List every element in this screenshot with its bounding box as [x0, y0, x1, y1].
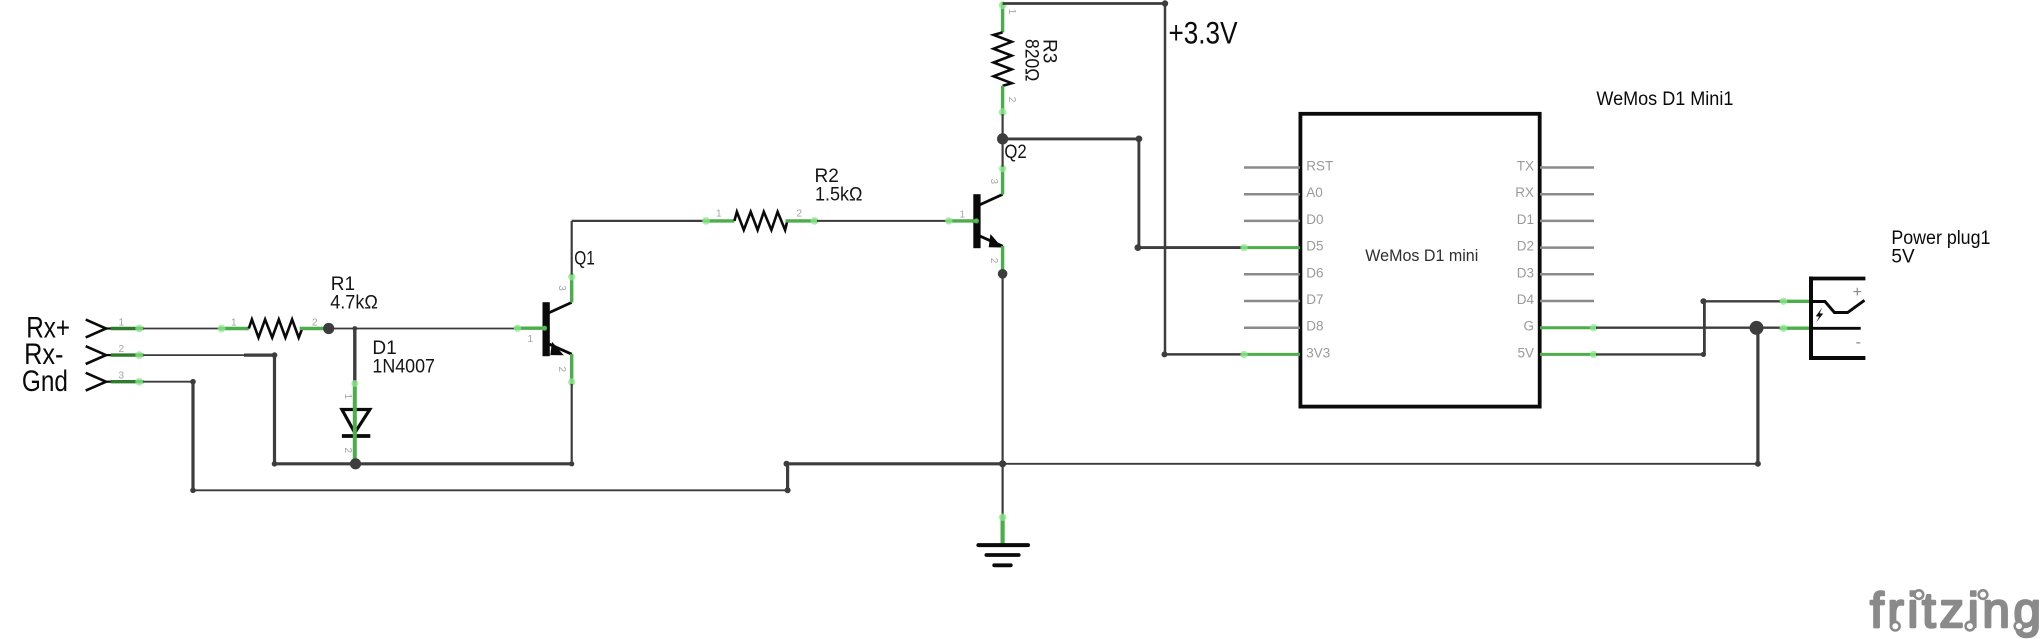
- resistor R3: [994, 1, 1017, 116]
- wire R2 to Q2 base: [817, 220, 948, 222]
- pin D6: [1244, 265, 1324, 280]
- label WeMos D1 Mini1: [1596, 89, 1733, 110]
- svg-text:D3: D3: [1517, 265, 1534, 280]
- pin 5V: [1517, 345, 1597, 360]
- wire 5V to plug plus: [1596, 298, 1783, 357]
- connector J1 pin 2 (Rx-): [86, 344, 144, 364]
- port label Gnd: [22, 365, 68, 398]
- power plug PWR1: [1780, 277, 1866, 360]
- resistor R1: [218, 317, 324, 337]
- wire 3.3V vertical to 3V3 pin: [1162, 4, 1244, 358]
- wire Rx- horizontal: [144, 354, 275, 356]
- svg-text:820Ω: 820Ω: [1021, 39, 1042, 81]
- port label Rx+: [26, 312, 70, 345]
- wire down to D1: [353, 329, 356, 383]
- svg-text:1: 1: [342, 394, 353, 400]
- label D1 1N4007: [372, 338, 435, 378]
- svg-text:Q2: Q2: [1004, 142, 1026, 163]
- svg-text:RST: RST: [1306, 159, 1333, 174]
- svg-text:5V: 5V: [1517, 345, 1534, 360]
- label Q2: [1004, 142, 1026, 163]
- svg-text:D8: D8: [1306, 319, 1323, 334]
- svg-text:G: G: [1523, 319, 1534, 334]
- connector J1 pin 1 (Rx+): [86, 318, 144, 338]
- transistor Q2: [945, 165, 1006, 278]
- pin RX: [1515, 185, 1594, 200]
- wire Gnd vertical down: [190, 382, 196, 493]
- wire gnd rise to plug minus: [1756, 328, 1759, 464]
- svg-text:Q1: Q1: [574, 249, 595, 270]
- svg-text:+3.3V: +3.3V: [1169, 14, 1238, 50]
- wire R1 junction to Q1 base: [329, 326, 516, 331]
- wire Q1 emitter down: [571, 384, 573, 464]
- svg-text:1: 1: [119, 318, 125, 329]
- wire Q2 collector up: [1001, 139, 1003, 167]
- svg-text:D1: D1: [1517, 212, 1534, 227]
- node G junction: [1750, 321, 1764, 335]
- IC U1 WeMos D1 mini body: [1300, 114, 1539, 407]
- wire gnd to ground symbol junction: [788, 462, 1003, 465]
- svg-text:2: 2: [988, 258, 999, 264]
- pin D8: [1244, 319, 1324, 334]
- pin D3: [1517, 265, 1594, 280]
- wire collector junction to D5: [1003, 136, 1243, 252]
- svg-text:-: -: [1856, 334, 1861, 351]
- node 3.3V top junction: [1162, 0, 1168, 6]
- watermark fritzing: [1870, 583, 2043, 638]
- transistor Q1: [514, 273, 576, 386]
- node D1 cathode junction: [350, 458, 361, 469]
- svg-text:D6: D6: [1306, 265, 1323, 280]
- svg-text:TX: TX: [1517, 159, 1534, 174]
- svg-text:1: 1: [231, 317, 237, 328]
- pin D5: [1240, 239, 1323, 254]
- ground symbol: [978, 514, 1028, 566]
- svg-text:RX: RX: [1515, 185, 1534, 200]
- svg-text:A0: A0: [1306, 185, 1323, 200]
- svg-text:1: 1: [528, 334, 534, 345]
- pin D4: [1517, 292, 1594, 307]
- svg-text:WeMos D1 mini: WeMos D1 mini: [1365, 246, 1478, 265]
- wire Q1 collector up and right to R2: [572, 221, 705, 275]
- wire D1 cathode to Q1 emitter net: [355, 461, 575, 466]
- wire Gnd horizontal stub: [144, 379, 196, 385]
- wire Rx+ to R1: [144, 328, 221, 330]
- label Q1: [574, 249, 595, 270]
- pin 3V3: [1240, 345, 1330, 360]
- svg-text:1.5kΩ: 1.5kΩ: [815, 185, 863, 206]
- pin A0: [1244, 185, 1323, 200]
- svg-text:D0: D0: [1306, 212, 1323, 227]
- connector J1 pin 3 (Gnd): [86, 371, 144, 391]
- svg-text:2: 2: [312, 317, 318, 328]
- wire Rx- bottom to D1 cathode: [275, 462, 355, 465]
- svg-text:Gnd: Gnd: [22, 365, 68, 398]
- svg-text:D4: D4: [1517, 292, 1535, 307]
- svg-text:1: 1: [716, 209, 722, 220]
- svg-text:5V: 5V: [1891, 247, 1915, 268]
- pin RST: [1244, 159, 1333, 174]
- label +3.3V: [1169, 14, 1238, 50]
- wire R3 bottom to junction: [1001, 114, 1003, 139]
- pin D0: [1244, 212, 1324, 227]
- wire gnd run to power plug: [1003, 461, 1761, 467]
- svg-text:3: 3: [556, 285, 567, 291]
- svg-text:2: 2: [556, 367, 567, 373]
- wire top 3.3V rail: [1003, 2, 1165, 5]
- label R2 1.5k: [815, 166, 863, 206]
- port label Rx-: [24, 338, 63, 371]
- svg-text:D5: D5: [1306, 239, 1323, 254]
- pin D7: [1244, 292, 1324, 307]
- svg-text:+: +: [1853, 284, 1862, 301]
- svg-text:4.7kΩ: 4.7kΩ: [330, 292, 378, 313]
- label R1 4.7k: [330, 274, 378, 314]
- pin TX: [1517, 159, 1594, 174]
- wire Q2 emitter to gnd rail: [1001, 274, 1003, 516]
- node Q2 emitter junction: [998, 269, 1008, 279]
- node R3/Q2 collector junction: [997, 133, 1008, 144]
- wire gnd jog up: [784, 461, 790, 491]
- svg-text:1N4007: 1N4007: [372, 357, 435, 378]
- pin D2: [1517, 239, 1594, 254]
- svg-text:3: 3: [119, 371, 125, 382]
- svg-text:3V3: 3V3: [1306, 345, 1330, 360]
- label R3 820 ohm (rotated): [1021, 39, 1060, 81]
- svg-text:2: 2: [342, 448, 353, 454]
- pin D1: [1517, 212, 1594, 227]
- wire Gnd long bottom run: [193, 487, 791, 493]
- diode D1: [342, 380, 370, 464]
- wire Rx- vertical down: [272, 352, 278, 466]
- svg-text:1: 1: [1006, 9, 1017, 15]
- svg-text:2: 2: [797, 209, 803, 220]
- svg-text:D2: D2: [1517, 239, 1534, 254]
- svg-text:2: 2: [119, 344, 125, 355]
- svg-text:2: 2: [1006, 97, 1017, 103]
- node R1 output junction: [323, 323, 334, 334]
- pin G: [1523, 319, 1597, 334]
- wire G to plug minus: [1596, 327, 1783, 329]
- resistor R2: [702, 209, 818, 230]
- node gnd junction: [999, 460, 1006, 467]
- svg-text:1: 1: [960, 210, 966, 221]
- svg-text:3: 3: [988, 179, 999, 185]
- label Power plug1 5V: [1891, 228, 1990, 267]
- svg-text:WeMos D1 Mini1: WeMos D1 Mini1: [1596, 89, 1733, 110]
- svg-text:D7: D7: [1306, 292, 1323, 307]
